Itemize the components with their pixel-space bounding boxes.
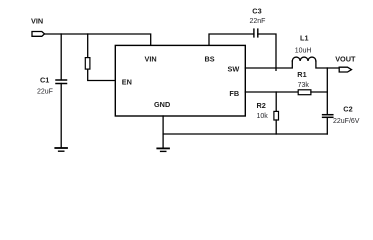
svg-text:FB: FB xyxy=(229,89,239,98)
svg-text:BS: BS xyxy=(205,55,215,64)
svg-text:EN: EN xyxy=(122,77,132,86)
svg-text:10uH: 10uH xyxy=(295,48,312,55)
svg-text:VOUT: VOUT xyxy=(335,54,356,63)
svg-text:C2: C2 xyxy=(343,105,352,114)
svg-text:10k: 10k xyxy=(257,113,269,120)
svg-text:22uF/6V: 22uF/6V xyxy=(333,118,360,125)
svg-text:R2: R2 xyxy=(257,101,266,110)
svg-text:VIN: VIN xyxy=(31,17,43,26)
svg-text:22nF: 22nF xyxy=(250,18,266,25)
svg-text:L1: L1 xyxy=(300,33,309,42)
svg-text:C1: C1 xyxy=(40,76,49,85)
svg-text:C3: C3 xyxy=(252,7,261,16)
svg-text:73k: 73k xyxy=(298,82,310,89)
svg-text:SW: SW xyxy=(228,65,240,74)
svg-text:GND: GND xyxy=(154,100,170,109)
svg-text:VIN: VIN xyxy=(145,55,157,64)
svg-text:22uF: 22uF xyxy=(37,89,53,96)
svg-text:R1: R1 xyxy=(297,70,306,79)
